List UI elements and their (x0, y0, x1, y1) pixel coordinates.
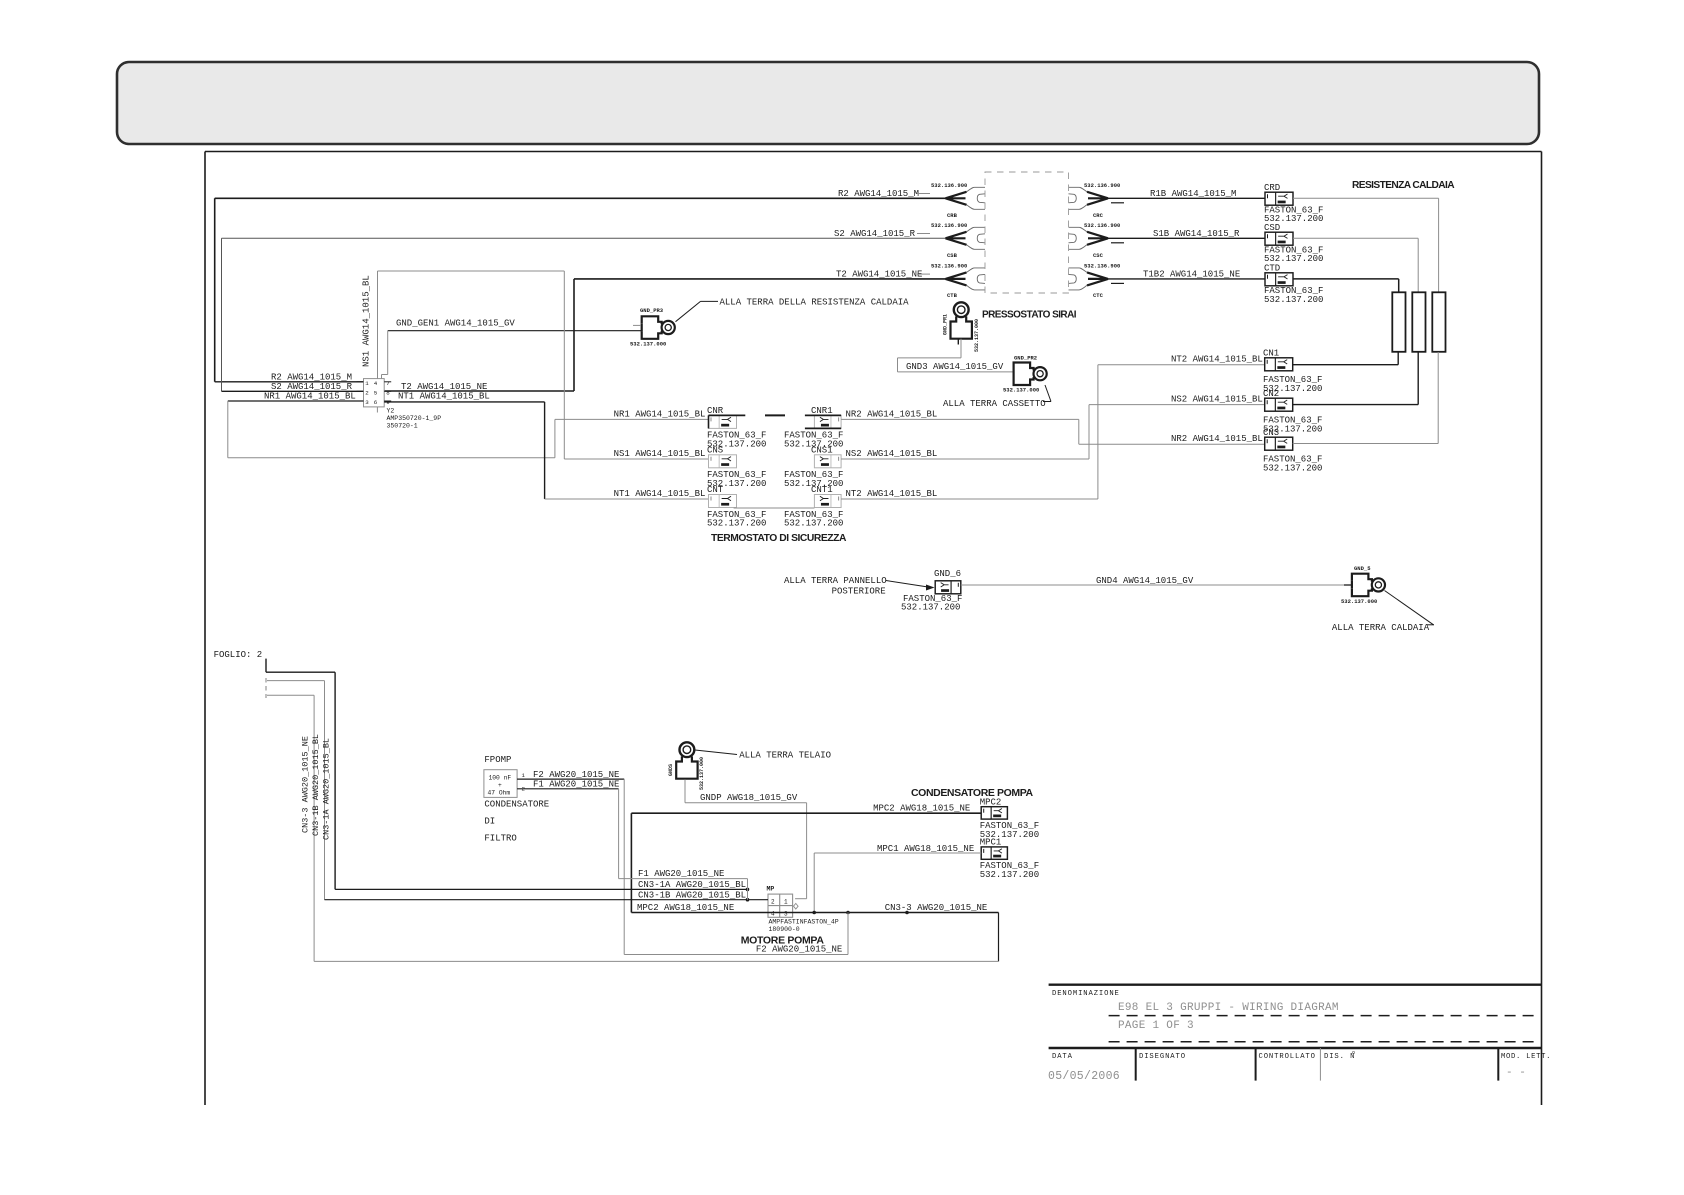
svg-text:E98 EL 3 GRUPPI - WIRING DIAGR: E98 EL 3 GRUPPI - WIRING DIAGRAM (1118, 1002, 1339, 1014)
svg-text:GND_5: GND_5 (1354, 565, 1371, 572)
svg-text:F1 AWG20_1015_NE: F1 AWG20_1015_NE (533, 780, 619, 790)
svg-text:350720-1: 350720-1 (387, 423, 418, 430)
svg-text:MPC1: MPC1 (980, 838, 1002, 848)
svg-text:CN3-1B AWG20_1015_BL: CN3-1B AWG20_1015_BL (311, 734, 321, 836)
svg-text:F2 AWG20_1015_NE: F2 AWG20_1015_NE (756, 945, 842, 955)
svg-text:GND_6: GND_6 (934, 569, 961, 579)
svg-text:R2 AWG14_1015_M: R2 AWG14_1015_M (271, 373, 352, 383)
svg-text:FILTRO: FILTRO (484, 834, 516, 844)
svg-text:ALLA TERRA CASSETTO: ALLA TERRA CASSETTO (943, 399, 1046, 409)
svg-text:NR2 AWG14_1015_BL: NR2 AWG14_1015_BL (1171, 434, 1263, 444)
svg-text:ALLA TERRA TELAIO: ALLA TERRA TELAIO (739, 750, 831, 760)
svg-text:FPOMP: FPOMP (484, 755, 511, 765)
svg-text:PRESSOSTATO SIRAI: PRESSOSTATO SIRAI (982, 309, 1077, 320)
svg-text:5: 5 (374, 390, 378, 397)
svg-text:180900-0: 180900-0 (769, 926, 800, 933)
svg-text:NR1 AWG14_1015_BL: NR1 AWG14_1015_BL (264, 392, 356, 402)
svg-text:4: 4 (374, 380, 378, 387)
svg-text:100 nF: 100 nF (489, 775, 512, 782)
svg-text:NT2 AWG14_1015_BL: NT2 AWG14_1015_BL (846, 489, 938, 499)
svg-text:AMPFASTINFASTON_4P: AMPFASTINFASTON_4P (769, 918, 839, 925)
svg-text:3: 3 (365, 399, 369, 406)
svg-text:+: + (498, 782, 502, 789)
svg-text:TERMOSTATO DI SICUREZZA: TERMOSTATO DI SICUREZZA (711, 533, 847, 544)
svg-text:MPC1 AWG18_1015_NE: MPC1 AWG18_1015_NE (877, 844, 974, 854)
svg-text:CSB: CSB (947, 252, 958, 259)
svg-text:DI: DI (484, 817, 495, 827)
svg-text:POSTERIORE: POSTERIORE (832, 587, 886, 597)
svg-text:AMP350720-1_9P: AMP350720-1_9P (387, 415, 442, 422)
svg-text:CNR: CNR (707, 406, 724, 416)
svg-text:GND_PR1: GND_PR1 (943, 314, 949, 335)
svg-text:R1B AWG14_1015_M: R1B AWG14_1015_M (1150, 189, 1236, 199)
svg-text:1: 1 (784, 898, 788, 905)
svg-text:CNS1: CNS1 (811, 446, 833, 456)
svg-text:CN2: CN2 (1263, 389, 1279, 399)
svg-text:CTD: CTD (1264, 264, 1280, 274)
svg-text:GND3 AWG14_1015_GV: GND3 AWG14_1015_GV (906, 362, 1004, 372)
svg-text:CRD: CRD (1264, 183, 1280, 193)
svg-text:PAGE 1 OF 3: PAGE 1 OF 3 (1118, 1020, 1194, 1032)
svg-text:NT1 AWG14_1015_BL: NT1 AWG14_1015_BL (398, 392, 490, 402)
svg-text:CNS: CNS (707, 446, 723, 456)
svg-text:2: 2 (365, 390, 369, 397)
svg-text:CTB: CTB (947, 292, 958, 299)
svg-text:GND4 AWG14_1015_GV: GND4 AWG14_1015_GV (1096, 576, 1194, 586)
svg-text:05/05/2006: 05/05/2006 (1048, 1070, 1120, 1083)
svg-text:DISEGNATO: DISEGNATO (1139, 1053, 1186, 1061)
svg-text:GNDS: GNDS (668, 764, 674, 776)
svg-text:FOGLIO: 2: FOGLIO: 2 (214, 650, 263, 660)
svg-text:532.136.900: 532.136.900 (931, 182, 967, 189)
svg-text:NS2 AWG14_1015_BL: NS2 AWG14_1015_BL (1171, 395, 1263, 405)
svg-text:ALLA TERRA DELLA RESISTENZA CA: ALLA TERRA DELLA RESISTENZA CALDAIA (720, 298, 910, 308)
svg-text:T2 AWG14_1015_NE: T2 AWG14_1015_NE (836, 270, 922, 280)
svg-text:532.136.900: 532.136.900 (931, 263, 967, 270)
svg-text:532.137.200: 532.137.200 (1263, 464, 1322, 474)
svg-text:3: 3 (784, 910, 788, 917)
svg-text:532.137.200: 532.137.200 (901, 603, 960, 613)
svg-text:CNR1: CNR1 (811, 406, 833, 416)
svg-text:CN3-1B AWG20_1015_BL: CN3-1B AWG20_1015_BL (638, 890, 746, 900)
svg-text:CONTROLLATO: CONTROLLATO (1259, 1053, 1316, 1061)
svg-text:CONDENSATORE: CONDENSATORE (484, 800, 549, 810)
svg-text:CN3-1A AWG20_1015_BL: CN3-1A AWG20_1015_BL (322, 738, 332, 840)
svg-text:ALLA TERRA CALDAIA: ALLA TERRA CALDAIA (1332, 623, 1430, 633)
svg-text:6: 6 (374, 399, 378, 406)
svg-text:NS1 AWG14_1015_BL: NS1 AWG14_1015_BL (362, 275, 372, 367)
svg-text:CONDENSATORE POMPA: CONDENSATORE POMPA (911, 787, 1034, 799)
svg-text:MP: MP (767, 886, 775, 893)
svg-text:NT2 AWG14_1015_BL: NT2 AWG14_1015_BL (1171, 355, 1263, 365)
svg-text:MPC2: MPC2 (980, 798, 1002, 808)
svg-text:532.136.900: 532.136.900 (1084, 222, 1120, 229)
svg-text:MOD. LETT.: MOD. LETT. (1501, 1053, 1551, 1061)
svg-text:CN1: CN1 (1263, 349, 1279, 359)
svg-text:532.136.900: 532.136.900 (1084, 263, 1120, 270)
svg-text:532.137.000: 532.137.000 (1341, 598, 1377, 605)
svg-text:532.137.000: 532.137.000 (1003, 387, 1039, 394)
svg-text:T1B2 AWG14_1015_NE: T1B2 AWG14_1015_NE (1143, 270, 1240, 280)
svg-text:CNT: CNT (707, 485, 724, 495)
svg-text:F1 AWG20_1015_NE: F1 AWG20_1015_NE (638, 869, 724, 879)
svg-text:532.137.000: 532.137.000 (630, 341, 666, 348)
svg-text:NT1 AWG14_1015_BL: NT1 AWG14_1015_BL (614, 489, 706, 499)
svg-text:47 Ohm: 47 Ohm (488, 790, 511, 797)
svg-text:S2 AWG14_1015_R: S2 AWG14_1015_R (271, 382, 353, 392)
svg-text:CN3: CN3 (1263, 428, 1279, 438)
svg-text:NR2 AWG14_1015_BL: NR2 AWG14_1015_BL (846, 410, 938, 420)
svg-text:R2 AWG14_1015_M: R2 AWG14_1015_M (838, 189, 919, 199)
svg-text:CNT1: CNT1 (811, 485, 833, 495)
svg-text:DATA: DATA (1052, 1053, 1073, 1061)
svg-text:T2 AWG14_1015_NE: T2 AWG14_1015_NE (401, 382, 487, 392)
svg-text:532.137.200: 532.137.200 (784, 519, 843, 529)
svg-text:532.137.200: 532.137.200 (1264, 295, 1323, 305)
svg-text:532.137.200: 532.137.200 (980, 870, 1039, 880)
svg-text:Y2: Y2 (387, 408, 395, 415)
svg-text:DIS. N: DIS. N (1324, 1053, 1355, 1061)
svg-text:532.137.000: 532.137.000 (974, 319, 980, 352)
svg-text:GND_GEN1 AWG14_1015_GV: GND_GEN1 AWG14_1015_GV (396, 319, 515, 329)
svg-text:7: 7 (386, 380, 390, 387)
svg-text:ALLA TERRA PANNELLO: ALLA TERRA PANNELLO (784, 576, 887, 586)
svg-text:o: o (1352, 1050, 1355, 1056)
svg-text:NS2 AWG14_1015_BL: NS2 AWG14_1015_BL (846, 449, 938, 459)
svg-text:S2 AWG14_1015_R: S2 AWG14_1015_R (834, 229, 916, 239)
svg-text:MPC2 AWG18_1015_NE: MPC2 AWG18_1015_NE (873, 804, 970, 814)
svg-text:9: 9 (386, 399, 390, 406)
svg-text:NS1 AWG14_1015_BL: NS1 AWG14_1015_BL (614, 449, 706, 459)
svg-text:532.137.200: 532.137.200 (707, 519, 766, 529)
svg-text:CN3-3 AWG20_1015_NE: CN3-3 AWG20_1015_NE (885, 903, 988, 913)
svg-text:MPC2 AWG18_1015_NE: MPC2 AWG18_1015_NE (637, 903, 734, 913)
svg-text:GND_PR2: GND_PR2 (1014, 355, 1037, 362)
svg-text:CN3-1A AWG20_1015_BL: CN3-1A AWG20_1015_BL (638, 880, 746, 890)
svg-text:532.137.000: 532.137.000 (699, 757, 705, 790)
svg-text:532.136.900: 532.136.900 (931, 222, 967, 229)
svg-text:8: 8 (386, 390, 390, 397)
svg-text:DENOMINAZIONE: DENOMINAZIONE (1052, 990, 1120, 998)
svg-text:F2 AWG20_1015_NE: F2 AWG20_1015_NE (533, 770, 619, 780)
svg-text:2: 2 (771, 898, 775, 905)
svg-text:1: 1 (522, 772, 526, 779)
svg-text:RESISTENZA CALDAIA: RESISTENZA CALDAIA (1352, 180, 1455, 191)
svg-text:NR1 AWG14_1015_BL: NR1 AWG14_1015_BL (614, 410, 706, 420)
svg-text:CSC: CSC (1093, 252, 1104, 259)
svg-text:S1B AWG14_1015_R: S1B AWG14_1015_R (1153, 229, 1240, 239)
svg-text:1: 1 (365, 380, 369, 387)
svg-text:CRB: CRB (947, 212, 958, 219)
svg-text:CRC: CRC (1093, 212, 1104, 219)
svg-text:CSD: CSD (1264, 223, 1280, 233)
svg-text:GNDP AWG18_1015_GV: GNDP AWG18_1015_GV (700, 793, 798, 803)
svg-text:- -: - - (1506, 1067, 1526, 1079)
svg-text:GND_PR3: GND_PR3 (640, 307, 664, 314)
svg-text:CN3-3 AWG20_1015_NE: CN3-3 AWG20_1015_NE (301, 736, 311, 833)
svg-text:4: 4 (771, 910, 775, 917)
svg-text:532.136.900: 532.136.900 (1084, 182, 1120, 189)
svg-text:CTC: CTC (1093, 292, 1104, 299)
